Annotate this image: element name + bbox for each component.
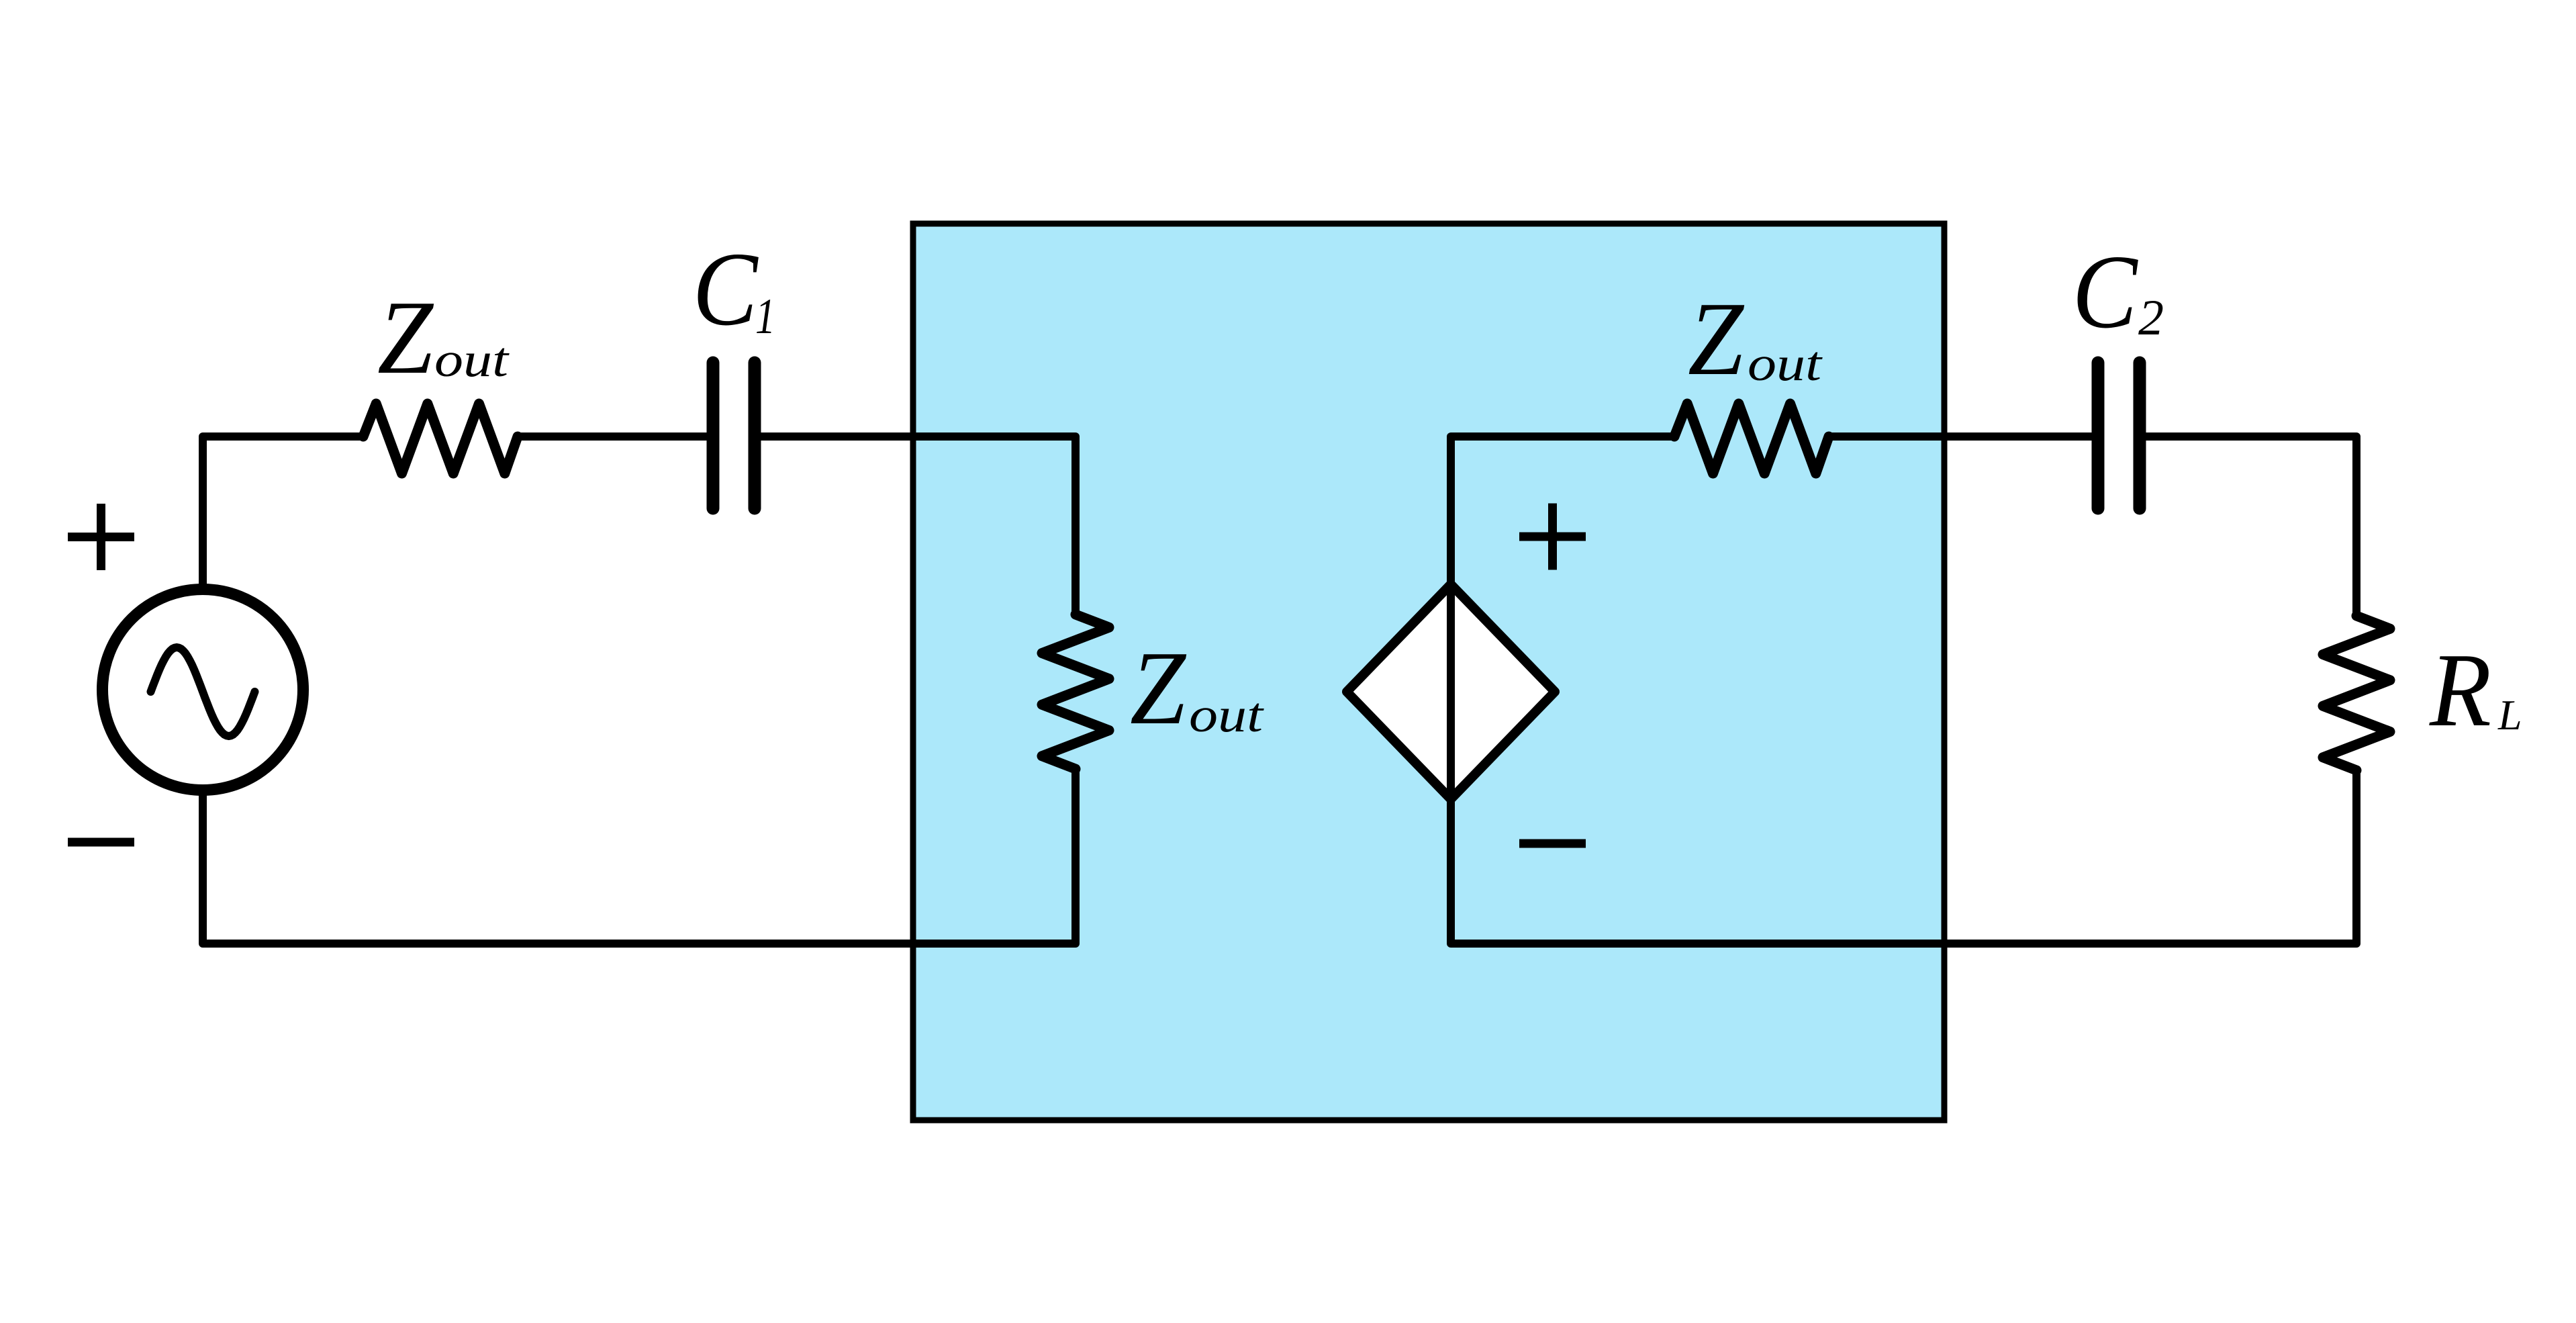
svg-text:C: C (693, 230, 759, 347)
wire: RL bottom, bottom rail to diamond (1451, 770, 2356, 944)
resistor R1 Zout (source impedance) (363, 404, 518, 473)
sine symbol (151, 647, 255, 736)
minus (diamond) (1519, 839, 1586, 848)
svg-text:C: C (2072, 233, 2139, 350)
svg-text:L: L (2497, 691, 2522, 739)
svg-text:out: out (434, 332, 510, 387)
plus (diamond) (1519, 504, 1586, 570)
capacitor C1 (707, 363, 720, 508)
svg-text:Z: Z (1688, 280, 1745, 397)
wire: C1 into box to input node (761, 437, 1076, 614)
dependent source U1 (diamond) (1347, 584, 1555, 799)
svg-text:Z: Z (377, 279, 434, 396)
resistor R3 Zout (output impedance) (1674, 404, 1829, 473)
plus (source) (68, 504, 134, 570)
svg-text:Z: Z (1130, 629, 1187, 746)
svg-text:1: 1 (755, 289, 775, 345)
wire: R2 down, bottom rail left, up to source (203, 769, 1076, 944)
AC source V1 (103, 590, 303, 790)
wire: diamond top to R3 (1451, 437, 1674, 584)
resistor R2 Zout (input impedance, vertical) (1042, 614, 1109, 769)
wire: C2 to RL top (2146, 437, 2356, 616)
resistor R4 RL (load, vertical) (2323, 616, 2390, 770)
amplifier box (shaded region) (913, 224, 1944, 1120)
svg-text:R: R (2429, 631, 2491, 748)
svg-text:out: out (1189, 688, 1264, 742)
wire: R3 to C2 (1829, 432, 2091, 441)
minus (source) (68, 838, 134, 847)
svg-text:2: 2 (2138, 290, 2164, 346)
wire: R1 to C1 (518, 432, 706, 441)
wire through diamond (1447, 584, 1455, 799)
svg-text:out: out (1748, 336, 1823, 391)
wire: source top to resistor R1 (203, 437, 363, 590)
capacitor C2 (2092, 363, 2105, 508)
